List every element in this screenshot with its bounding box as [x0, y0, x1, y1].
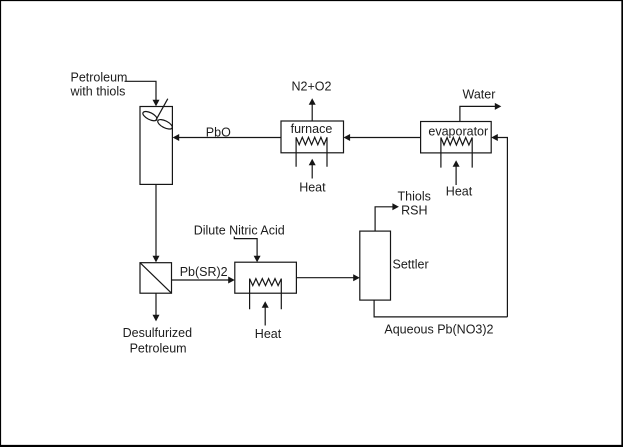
separator diagonal	[140, 263, 172, 294]
label Petroleum with thiols	[70, 70, 128, 98]
wire Water out of evaporator	[460, 106, 496, 121]
wire Heat into evaporator	[455, 166, 457, 185]
evaporator U3	[421, 122, 492, 153]
svg-text:PbO: PbO	[206, 126, 231, 140]
heater element reactor	[250, 279, 282, 310]
wire dilute nitric acid into reactor	[234, 237, 257, 257]
wire N2+O2 out of furnace	[311, 104, 313, 121]
wire feed: petroleum to mixer	[125, 81, 157, 100]
reactor U4	[235, 262, 297, 293]
wire evaporator to furnace	[350, 137, 421, 139]
wire Heat into reactor	[264, 307, 266, 326]
heater element evaporator	[441, 138, 472, 168]
impeller blade upper	[141, 110, 158, 123]
svg-text:Thiols: Thiols	[398, 189, 431, 203]
svg-text:Dilute Nitric Acid: Dilute Nitric Acid	[194, 223, 285, 237]
svg-text:Heat: Heat	[255, 327, 282, 341]
svg-text:RSH: RSH	[401, 203, 427, 217]
wire recycle aqueous to evaporator	[497, 138, 507, 317]
svg-text:Desulfurized: Desulfurized	[123, 326, 193, 340]
svg-text:Heat: Heat	[446, 185, 473, 199]
mixer vessel M1	[140, 107, 172, 185]
wire reactor to settler	[296, 277, 353, 279]
svg-text:Pb(SR)2: Pb(SR)2	[180, 265, 228, 279]
wire Desulfurized petroleum out	[155, 293, 157, 315]
wire Heat into furnace	[311, 165, 313, 179]
svg-text:N2+O2: N2+O2	[292, 80, 332, 94]
svg-text:evaporator: evaporator	[428, 124, 488, 138]
wire Thiols RSH out of settler	[375, 207, 393, 231]
wire mixer to separator	[155, 184, 157, 256]
wire settler bottoms to recycle	[374, 300, 507, 317]
svg-text:Water: Water	[463, 88, 496, 102]
label Desulfurized Petroleum	[123, 326, 193, 355]
svg-text:furnace: furnace	[291, 122, 333, 136]
impeller shaft	[156, 99, 168, 121]
wire Pb(SR)2: separator to reactor	[172, 279, 229, 281]
furnace U2	[281, 121, 344, 153]
separator F1	[140, 263, 172, 294]
svg-text:Aqueous Pb(NO3)2: Aqueous Pb(NO3)2	[384, 322, 493, 336]
settler V1	[360, 231, 391, 300]
heater element furnace	[296, 137, 327, 167]
impeller blade lower	[156, 118, 173, 131]
svg-text:with thiols: with thiols	[70, 84, 126, 98]
svg-text:Heat: Heat	[299, 181, 326, 195]
svg-text:Petroleum: Petroleum	[130, 342, 187, 356]
wire PbO: furnace to mixer	[179, 137, 282, 139]
svg-text:Petroleum: Petroleum	[71, 70, 128, 84]
svg-text:Settler: Settler	[393, 257, 429, 271]
